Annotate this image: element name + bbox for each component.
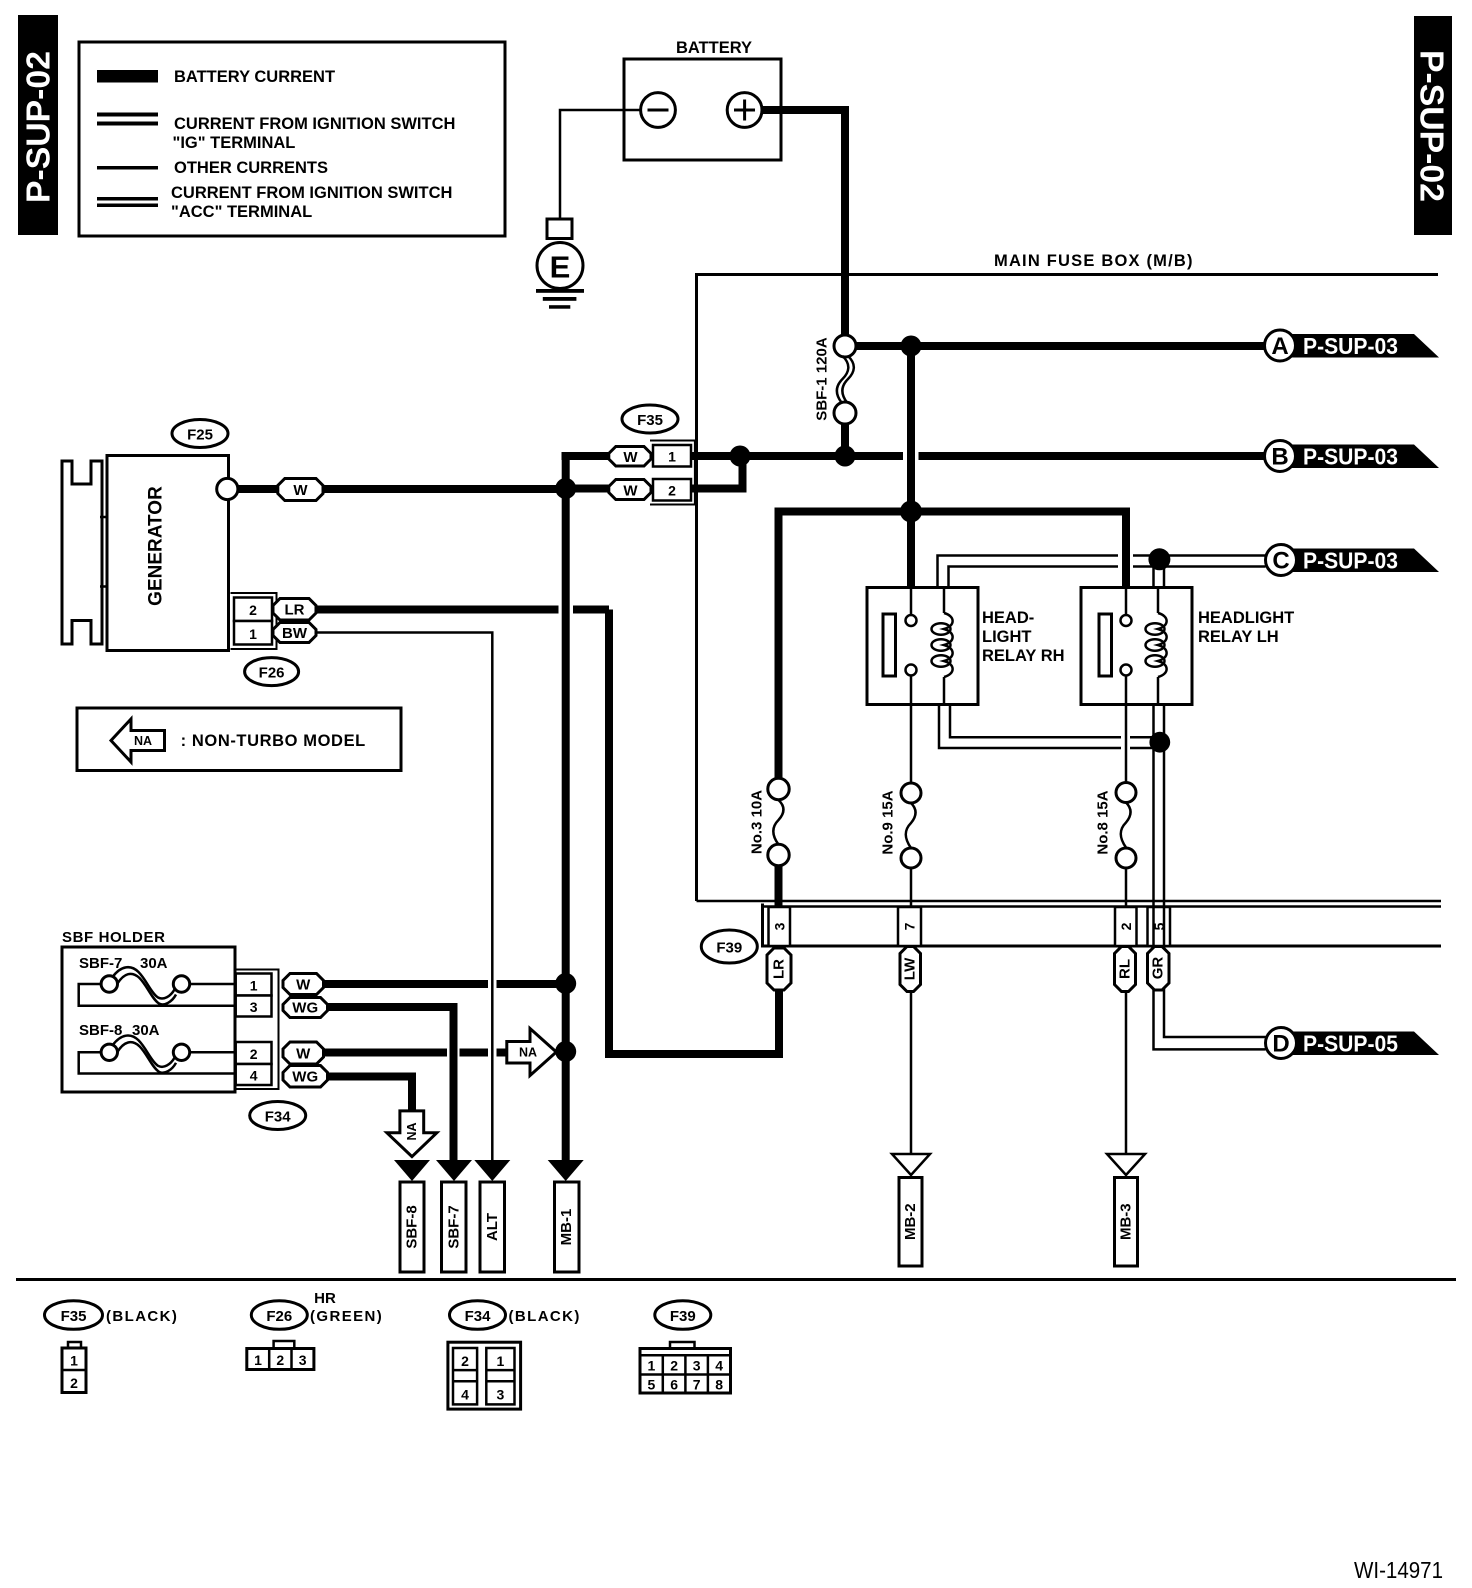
wire W SBF-7 to MB-1 riser <box>324 980 566 988</box>
svg-text:SBF-8: SBF-8 <box>404 1205 421 1248</box>
svg-text:GR: GR <box>1150 957 1167 980</box>
wire label BW <box>273 623 316 643</box>
svg-text:F39: F39 <box>716 940 742 957</box>
wire F35-1 to node B <box>691 452 740 460</box>
wire label WG (SBF-7) <box>283 998 328 1018</box>
junction W / riser <box>555 973 576 994</box>
footer connector F35 pinout <box>62 1342 86 1393</box>
svg-text:F26: F26 <box>259 665 285 682</box>
svg-text:CURRENT FROM IGNITION SWITCH: CURRENT FROM IGNITION SWITCH <box>174 115 455 133</box>
svg-text:(BLACK): (BLACK) <box>106 1308 178 1325</box>
generator terminal circle <box>217 478 238 499</box>
svg-text:(GREEN): (GREEN) <box>310 1308 383 1325</box>
footer connector F39 label <box>655 1301 711 1330</box>
svg-text:NA: NA <box>519 1046 537 1060</box>
junction on line A <box>901 336 922 357</box>
svg-text:HEAD-: HEAD- <box>982 609 1034 627</box>
svg-text:No.9 15A: No.9 15A <box>880 790 897 854</box>
svg-text:F26: F26 <box>266 1308 292 1325</box>
svg-text:1: 1 <box>70 1353 78 1369</box>
svg-text:W: W <box>293 482 308 499</box>
svg-text:WG: WG <box>292 1000 318 1017</box>
svg-text:P-SUP-02: P-SUP-02 <box>20 51 57 203</box>
terminal arrow SBF-8 <box>394 1160 430 1272</box>
svg-text:6: 6 <box>670 1377 678 1393</box>
svg-text:2: 2 <box>276 1352 284 1368</box>
svg-text:3: 3 <box>772 922 788 930</box>
svg-text:1: 1 <box>668 449 676 465</box>
wire pair to C lower <box>949 567 1266 588</box>
svg-text:A: A <box>1271 333 1288 360</box>
junction line B / F35 <box>730 446 751 467</box>
svg-text:2: 2 <box>249 602 257 618</box>
wire label LR vertical <box>767 948 791 990</box>
svg-text:WI-14971: WI-14971 <box>1354 1557 1443 1583</box>
wire relay coils to D: verticals through F39 <box>1154 705 1266 1050</box>
connector label F34 <box>250 1102 306 1130</box>
svg-text:P-SUP-03: P-SUP-03 <box>1303 548 1398 574</box>
svg-text:2: 2 <box>668 483 676 499</box>
svg-text:2: 2 <box>250 1046 258 1062</box>
connector label F35 <box>622 405 678 433</box>
F39 cell 7 <box>898 907 921 946</box>
wire relay bus <box>779 512 1127 780</box>
svg-text:7: 7 <box>693 1377 701 1393</box>
page tab left P-SUP-02 <box>18 15 58 235</box>
svg-text:F25: F25 <box>187 427 213 444</box>
wire label WG (SBF-8) <box>283 1066 328 1088</box>
wire label LR <box>273 599 316 621</box>
connector label F25 <box>172 420 228 448</box>
wire battery negative to ground <box>560 110 641 219</box>
svg-text:1: 1 <box>497 1353 505 1369</box>
fuse SBF-7 30A <box>79 967 235 1006</box>
svg-text:SBF-830A: SBF-830A <box>79 1022 160 1039</box>
fuse No.8 15A <box>1095 783 1137 908</box>
junction line B / SBF-1 <box>835 446 856 467</box>
wire line A <box>856 342 1265 350</box>
wire riser MB-1 <box>562 456 610 1160</box>
svg-text:3: 3 <box>497 1387 505 1403</box>
banner A P-SUP-03 <box>1265 330 1440 361</box>
terminal arrow SBF-7 <box>436 1160 472 1272</box>
relay RH coil <box>932 589 953 703</box>
svg-text:F35: F35 <box>637 412 663 429</box>
svg-text:No.8 15A: No.8 15A <box>1095 790 1112 854</box>
svg-text:P-SUP-03: P-SUP-03 <box>1303 333 1398 359</box>
connector label F26 <box>245 658 299 686</box>
F39 cell 5 <box>1148 907 1171 946</box>
svg-text:P-SUP-03: P-SUP-03 <box>1303 444 1398 470</box>
junction W riser <box>555 478 576 499</box>
footer connector F26 label <box>251 1290 383 1329</box>
svg-text:B: B <box>1271 444 1288 471</box>
terminal arrow MB-1 <box>548 1160 584 1272</box>
svg-text:F34: F34 <box>465 1308 492 1325</box>
F39 cell 3 <box>769 907 791 946</box>
terminal arrow MB-3 <box>1107 1154 1145 1266</box>
svg-text:HR: HR <box>314 1290 336 1307</box>
footer connector F39 pinout <box>640 1342 731 1393</box>
svg-text:8: 8 <box>715 1377 723 1393</box>
junction C <box>1148 548 1170 570</box>
wire BW to ALT <box>316 633 492 1161</box>
svg-text:RELAY RH: RELAY RH <box>982 647 1065 665</box>
svg-text:4: 4 <box>715 1358 723 1374</box>
wire label GR vertical <box>1148 947 1170 991</box>
svg-text:GENERATOR: GENERATOR <box>146 486 167 606</box>
ground E <box>536 219 584 309</box>
svg-text:W: W <box>623 449 638 466</box>
svg-text:1: 1 <box>648 1358 656 1374</box>
wire battery positive to SBF-1 <box>762 110 845 336</box>
svg-text:D: D <box>1272 1031 1289 1058</box>
svg-text:BATTERY: BATTERY <box>676 39 752 57</box>
wire label W (SBF-8) <box>283 1042 324 1064</box>
svg-text:OTHER CURRENTS: OTHER CURRENTS <box>174 159 328 177</box>
wire LW to MB-2 <box>910 992 913 1155</box>
svg-text:2: 2 <box>670 1358 678 1374</box>
banner B P-SUP-03 <box>1265 441 1440 472</box>
svg-text:SBF HOLDER: SBF HOLDER <box>62 929 166 946</box>
footer connector F26 pinout <box>247 1341 314 1370</box>
svg-text:W: W <box>623 483 638 500</box>
wire relay RH coil bottom pair <box>939 705 1165 749</box>
page tab right P-SUP-02 <box>1414 16 1453 235</box>
terminal arrow ALT <box>474 1160 510 1272</box>
connector F35 cells <box>650 441 695 505</box>
main fuse box M/B <box>697 252 1442 901</box>
svg-text:F39: F39 <box>670 1308 696 1325</box>
footer connector F34 pinout <box>448 1342 521 1409</box>
F39 cell 2 <box>1115 907 1137 946</box>
svg-text:CURRENT FROM IGNITION SWITCH: CURRENT FROM IGNITION SWITCH <box>171 184 452 202</box>
svg-text:MB-1: MB-1 <box>558 1209 575 1246</box>
connector F35 pills W <box>609 447 651 500</box>
svg-text:BATTERY CURRENT: BATTERY CURRENT <box>174 68 335 86</box>
svg-text:LIGHT: LIGHT <box>982 628 1032 646</box>
svg-text:2: 2 <box>461 1353 469 1369</box>
svg-text:2: 2 <box>70 1375 78 1391</box>
svg-text:5: 5 <box>1151 922 1167 930</box>
generator box F25 <box>107 456 229 651</box>
wire label W (SBF-7) <box>283 974 324 995</box>
fuse SBF-1 120A <box>814 335 857 424</box>
svg-text:MB-2: MB-2 <box>902 1203 919 1240</box>
connector label F39 <box>701 930 757 963</box>
terminal arrow MB-2 <box>892 1154 930 1266</box>
svg-text:NA: NA <box>405 1122 419 1140</box>
footer connector F35 label <box>45 1301 179 1330</box>
wire label RL vertical <box>1115 947 1136 992</box>
svg-text:3: 3 <box>299 1352 307 1368</box>
svg-text:LW: LW <box>902 957 919 980</box>
wire line B <box>740 452 1265 460</box>
arrow NA (non-turbo) on W line <box>507 1029 557 1076</box>
svg-text:C: C <box>1272 548 1289 575</box>
text relay LH <box>1198 609 1294 646</box>
legend box <box>79 42 505 236</box>
svg-text:4: 4 <box>250 1068 258 1084</box>
wire F35-2 to node B <box>691 456 743 489</box>
connector F34 cells <box>234 970 279 1090</box>
svg-text:1: 1 <box>249 626 257 642</box>
svg-text:ALT: ALT <box>484 1213 501 1241</box>
wire WG to SBF-7 terminal <box>328 1007 454 1160</box>
text relay RH <box>982 609 1065 665</box>
junction relay bus <box>900 501 922 523</box>
relay LH coil <box>1146 589 1167 703</box>
svg-text:No.3 10A: No.3 10A <box>749 790 766 854</box>
junction W SBF-8 / riser <box>555 1041 576 1062</box>
svg-text:P-SUP-02: P-SUP-02 <box>1414 50 1451 202</box>
wire WG SBF-8 down <box>328 1077 413 1112</box>
svg-text:NA: NA <box>134 734 152 748</box>
fuse No.3 10A <box>749 778 790 907</box>
connector strip F39 <box>763 904 1442 948</box>
wire W SBF-8 to riser (NA) <box>324 1049 509 1057</box>
svg-text:"ACC" TERMINAL: "ACC" TERMINAL <box>171 203 312 221</box>
banner D P-SUP-05 <box>1266 1028 1440 1059</box>
svg-text:MAIN FUSE BOX (M/B): MAIN FUSE BOX (M/B) <box>994 252 1194 270</box>
generator bracket <box>62 461 108 644</box>
svg-text:LR: LR <box>285 602 305 619</box>
relay LH box <box>1081 588 1192 784</box>
footer connector F34 label <box>450 1301 581 1330</box>
svg-text:W: W <box>296 977 311 994</box>
non-turbo legend box <box>77 708 401 771</box>
wire riser battery to relay bus <box>907 346 915 512</box>
connector F26 cells <box>231 593 277 649</box>
svg-text:SBF-1 120A: SBF-1 120A <box>814 337 831 421</box>
svg-text:MB-3: MB-3 <box>1118 1203 1135 1240</box>
svg-text:: NON-TURBO MODEL: : NON-TURBO MODEL <box>181 732 366 750</box>
wire C drop right <box>1163 559 1166 588</box>
fuse SBF-8 30A <box>79 1035 235 1073</box>
svg-text:RELAY LH: RELAY LH <box>1198 628 1279 646</box>
wire SBF-1 to line B <box>841 424 849 456</box>
svg-text:P-SUP-05: P-SUP-05 <box>1303 1031 1398 1057</box>
svg-text:"IG" TERMINAL: "IG" TERMINAL <box>173 134 296 152</box>
wire LR from generator <box>316 610 779 1055</box>
svg-text:E: E <box>550 250 571 285</box>
fuse No.9 15A <box>880 783 922 907</box>
svg-text:3: 3 <box>693 1358 701 1374</box>
svg-text:5: 5 <box>648 1377 656 1393</box>
banner C P-SUP-03 <box>1266 545 1440 576</box>
wire generator W to junction <box>238 485 561 493</box>
svg-text:F34: F34 <box>265 1109 292 1126</box>
svg-text:WG: WG <box>292 1069 318 1086</box>
svg-text:4: 4 <box>461 1387 469 1403</box>
svg-text:1: 1 <box>254 1352 262 1368</box>
wire label W (generator) <box>278 479 323 501</box>
svg-text:W: W <box>296 1046 311 1063</box>
svg-text:(BLACK): (BLACK) <box>509 1308 581 1325</box>
relay RH box <box>867 588 978 784</box>
svg-text:2: 2 <box>1118 922 1134 930</box>
svg-text:LR: LR <box>771 959 788 979</box>
junction coil pair D <box>1149 732 1170 753</box>
wire pair to C upper <box>938 556 1266 588</box>
footer divider <box>16 1278 1456 1281</box>
wire C drop left <box>1152 559 1155 588</box>
svg-text:HEADLIGHT: HEADLIGHT <box>1198 609 1294 627</box>
svg-text:7: 7 <box>902 922 918 930</box>
arrow NA (non-turbo) down <box>387 1111 437 1157</box>
wire label LW vertical <box>900 947 921 992</box>
svg-text:SBF-7: SBF-7 <box>445 1205 462 1248</box>
svg-text:3: 3 <box>250 999 258 1015</box>
svg-text:F35: F35 <box>61 1308 87 1325</box>
svg-text:BW: BW <box>282 625 308 642</box>
wire RL to MB-3 <box>1125 992 1128 1155</box>
svg-text:RL: RL <box>1117 959 1134 979</box>
SBF holder box <box>62 929 235 1092</box>
battery <box>624 39 781 160</box>
svg-text:1: 1 <box>250 978 258 994</box>
